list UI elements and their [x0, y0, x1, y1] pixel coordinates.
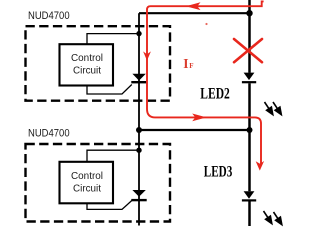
- red arrow (left) on top segment: [186, 2, 201, 10]
- dashed package outline U1: [26, 26, 171, 101]
- red arrowhead end of path: [256, 161, 264, 171]
- svg-text:NUD4700: NUD4700: [28, 10, 70, 22]
- red arrow (down) on left segment: [143, 51, 151, 60]
- svg-text:Control: Control: [71, 170, 103, 182]
- node junction dot middle rail left: [136, 127, 142, 133]
- svg-text:Control: Control: [71, 52, 103, 64]
- red arrow (right) on middle segment: [192, 114, 206, 122]
- svg-text:LED3: LED3: [204, 164, 233, 181]
- control circuit box U2: [60, 162, 114, 204]
- wire: top rail: [139, 12, 250, 14]
- node junction dot top rail / LED string: [246, 10, 252, 16]
- wire: control circuit top connection U2: [87, 150, 139, 161]
- node junction dot middle rail right: [247, 127, 253, 133]
- node junction dot U2 top: [136, 148, 141, 153]
- red artifact speck: [205, 23, 207, 25]
- svg-text:NUD4700: NUD4700: [28, 128, 70, 140]
- shunt thyristor U2: [132, 190, 145, 197]
- svg-text:LED2: LED2: [200, 86, 230, 103]
- wire: middle rail: [139, 129, 250, 131]
- wire: gate connection U1: [87, 85, 132, 95]
- failed-LED red X: [234, 39, 262, 62]
- wire: shunt vertical (anode-cathode) U1: [138, 13, 140, 130]
- svg-text:I: I: [183, 56, 188, 71]
- shunt thyristor U1: [132, 74, 145, 81]
- wire: shunt vertical U2: [138, 130, 140, 226]
- svg-text:Circuit: Circuit: [73, 65, 101, 77]
- red current path IF: [147, 1, 264, 164]
- LED3 emission arrows: [264, 211, 282, 225]
- node junction dot U1 top: [136, 31, 141, 36]
- LED3 diode: [244, 191, 255, 199]
- svg-text:F: F: [189, 62, 193, 70]
- wire: LED string vertical: [248, 0, 251, 226]
- dashed package outline U2: [26, 144, 171, 222]
- LED2 diode: [244, 73, 255, 81]
- LED2 emission arrows: [265, 102, 282, 115]
- svg-text:Circuit: Circuit: [73, 183, 101, 195]
- wire: gate connection U2: [87, 201, 132, 210]
- wire: control circuit top connection U1: [87, 34, 139, 44]
- control circuit box U1: [60, 44, 114, 85]
